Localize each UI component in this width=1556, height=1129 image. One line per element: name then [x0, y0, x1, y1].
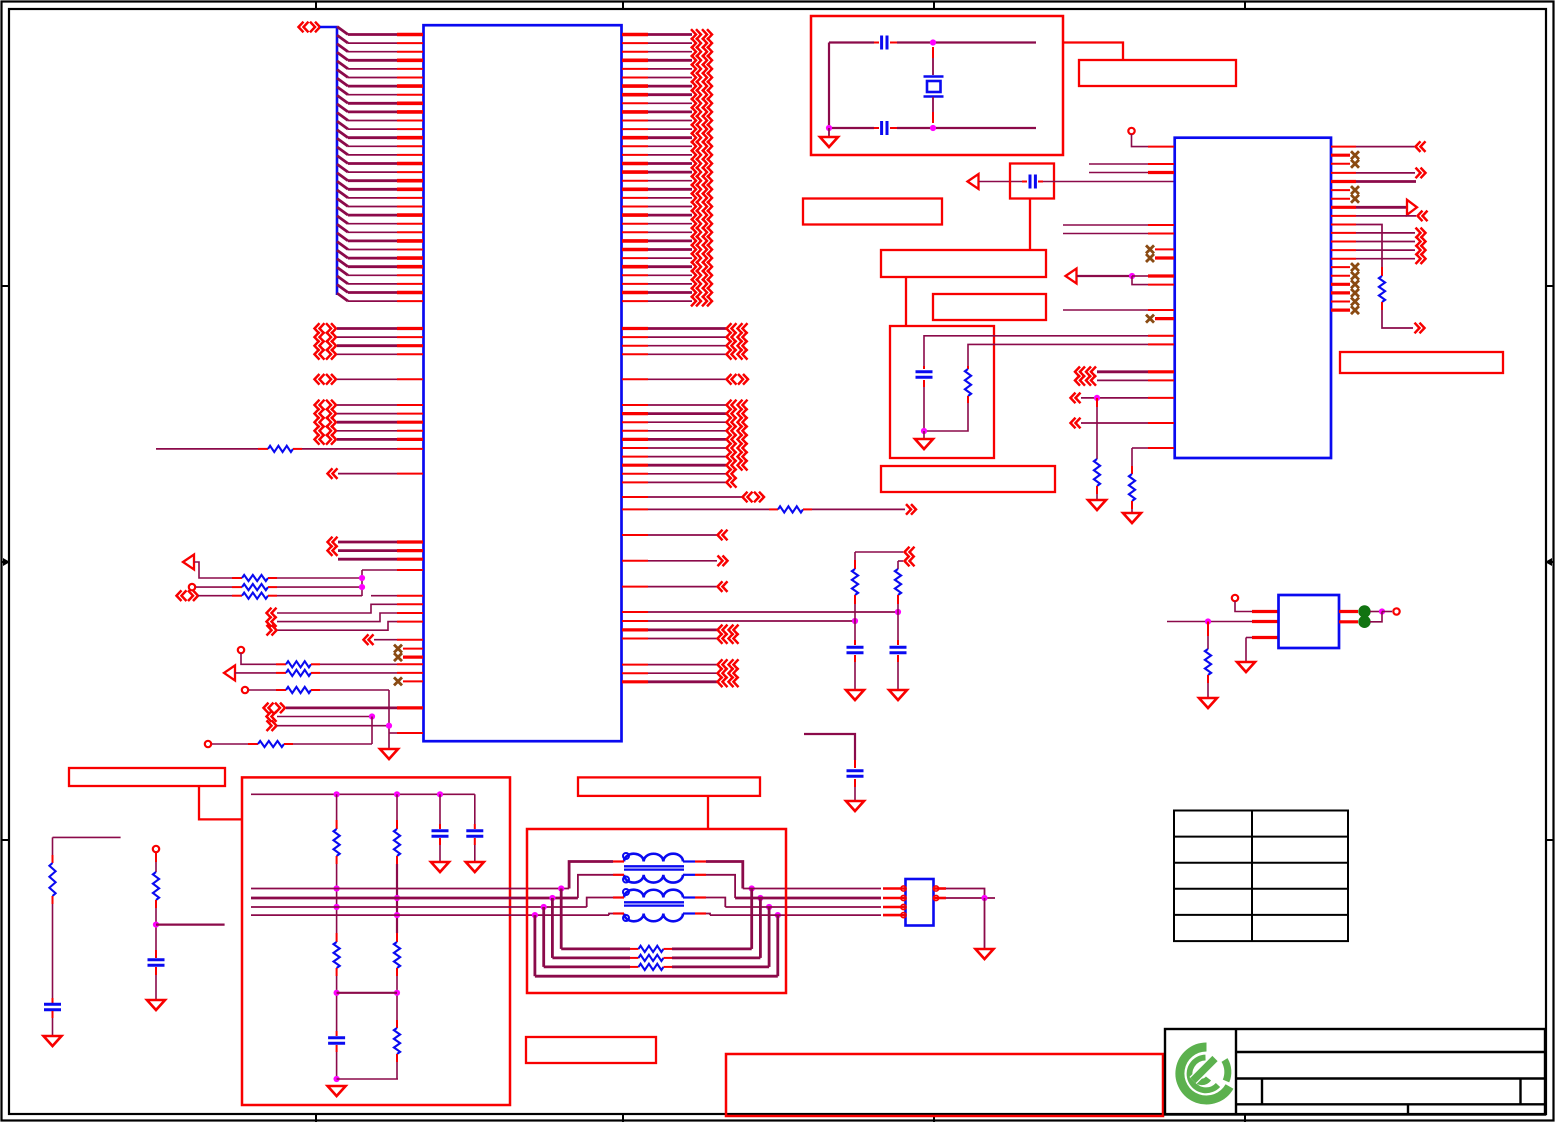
wire: [706, 898, 725, 908]
pin U1 left: [397, 473, 423, 475]
off-page connector: [743, 492, 748, 503]
bus entry wire: [337, 121, 348, 129]
wire U1 left pin row: [348, 214, 397, 217]
wire: [648, 464, 726, 467]
wire vertical: [396, 976, 398, 1020]
pin stub: [248, 743, 258, 745]
pin stub: [396, 968, 398, 976]
terminal: [205, 741, 211, 747]
off-page connector: [691, 236, 696, 247]
pin circle: [933, 895, 938, 900]
off-page connector: [738, 349, 743, 360]
off-page connector: [729, 633, 734, 644]
wire top: [897, 41, 1036, 43]
resistor R6: [286, 670, 311, 676]
wire: [569, 862, 613, 889]
title block bottom divider: [1407, 1104, 1409, 1114]
wire: [320, 689, 389, 691]
pin stub: [155, 967, 157, 975]
resistor R25: [639, 955, 664, 961]
wire vertical: [336, 1052, 338, 1079]
pin U1 right: [622, 248, 648, 252]
junction: [930, 39, 936, 45]
wire vertical: [371, 717, 373, 745]
pin T1: [695, 860, 706, 862]
resistor R9: [778, 506, 803, 512]
wire vertical: [984, 898, 986, 949]
off-page connector: [738, 340, 743, 351]
border zone tick top: [315, 2, 317, 9]
pin U1 left: [397, 33, 423, 37]
off-page connector: [727, 417, 732, 428]
junction: [359, 575, 365, 581]
pin U2 right: [1331, 275, 1350, 277]
off-page connector: [267, 616, 272, 627]
pin U1 right: [622, 534, 648, 536]
wire: [648, 438, 726, 441]
wire: [198, 595, 232, 597]
terminal: [153, 846, 159, 852]
pin U1 right: [622, 345, 648, 347]
off-page connector: [727, 469, 732, 480]
wire U1 left pin row: [348, 136, 397, 139]
wire: [286, 707, 397, 710]
off-page connector: [1071, 418, 1076, 429]
junction: [334, 1076, 340, 1082]
pin stub: [396, 933, 398, 942]
wire: [1097, 370, 1148, 373]
resistor R15: [1379, 276, 1385, 302]
off-page connector: [702, 218, 707, 229]
pin U1 right: [622, 51, 648, 53]
pin stub: [967, 396, 969, 403]
off-page connector: [1416, 236, 1421, 247]
pin stub: [232, 586, 242, 588]
wire: [1382, 611, 1392, 613]
wire U1 left pin row: [348, 85, 397, 88]
wire staircase: [277, 622, 397, 631]
wire: [1356, 258, 1415, 260]
pin U1 right: [622, 102, 648, 104]
wire gnd stub: [923, 431, 925, 439]
wire U1 right pin row: [648, 300, 692, 302]
pin stub: [52, 855, 54, 863]
resistor R26: [639, 964, 664, 970]
pin T1: [613, 860, 624, 862]
resistor R23: [394, 1028, 400, 1054]
resistor R20: [334, 942, 340, 968]
pin U1 left: [397, 291, 423, 295]
wire: [648, 345, 726, 347]
no-connect: [394, 653, 402, 661]
off-page connector: [702, 175, 707, 186]
bus entry wire: [337, 216, 348, 224]
wire U1 right pin row: [648, 248, 692, 251]
wire U1 right pin row: [648, 257, 692, 259]
wire: [337, 327, 397, 330]
wire vertical: [923, 387, 925, 431]
pin U1 right: [622, 128, 648, 130]
wire: [1077, 275, 1132, 277]
pin U2 left: [1148, 284, 1174, 286]
title block cell line: [1261, 1079, 1263, 1105]
label box: [803, 199, 942, 225]
wire: [648, 378, 726, 380]
off-page connector: [691, 81, 696, 92]
off-page connector: [702, 296, 707, 307]
pin circle: [901, 895, 906, 900]
pin stub: [474, 838, 476, 845]
pin U1 right: [622, 110, 648, 114]
pin U1 left: [397, 154, 423, 156]
wire: [1356, 172, 1415, 174]
pin U1 left: [397, 706, 423, 709]
terminal: [1393, 608, 1399, 614]
ground: [846, 690, 864, 700]
wire vertical: [396, 794, 398, 820]
resistor R7: [286, 687, 311, 693]
wire: [648, 508, 769, 510]
off-page connector: [702, 210, 707, 221]
pin U1 left: [397, 249, 423, 251]
capacitor C8: [44, 1003, 61, 1006]
pin U1 left: [397, 549, 423, 552]
wire U1 left pin row: [348, 162, 397, 165]
pin stub: [854, 779, 856, 787]
bus entry wire: [337, 156, 348, 164]
wire: [535, 975, 778, 978]
wire: [672, 948, 752, 951]
pin U2 left: [1148, 447, 1174, 449]
junction: [921, 428, 927, 434]
pin J1: [883, 887, 905, 890]
wire: [648, 412, 726, 415]
ground: [328, 1086, 346, 1096]
wire U1 right pin row: [648, 197, 692, 199]
wire U1 left pin row: [348, 128, 397, 130]
off-page connector: [702, 279, 707, 290]
resistor R24: [639, 946, 664, 952]
pin U1 right: [622, 180, 648, 182]
wire U1 left pin row: [348, 94, 397, 96]
resistor R2: [242, 575, 268, 581]
wire U1 left pin row: [348, 120, 397, 122]
pin U1 left: [397, 179, 423, 183]
off-page connector: [267, 711, 272, 722]
wire: [337, 413, 397, 415]
pin U1 left: [397, 663, 423, 665]
wire: [648, 638, 717, 640]
pin stub: [932, 47, 934, 58]
bus entry wire: [337, 259, 348, 267]
bus entry wire: [337, 104, 348, 112]
off-page connector: [729, 659, 734, 670]
pin U1 left: [397, 206, 423, 208]
label box: [726, 1054, 1163, 1116]
port output: [1407, 200, 1417, 215]
ground: [466, 862, 484, 872]
junction: [394, 990, 400, 996]
border center arrow right: [1547, 561, 1554, 563]
wire vertical: [396, 1062, 398, 1079]
wire elbow: [1370, 612, 1382, 622]
pin circle: [901, 913, 906, 918]
border zone tick bottom: [933, 1114, 935, 1122]
wire: [337, 438, 397, 441]
capacitor C7: [916, 370, 933, 373]
pin U1 left: [397, 603, 423, 605]
off-page connector: [702, 46, 707, 57]
off-page connector: [718, 556, 723, 567]
off-page connector: [702, 98, 707, 109]
pin stub: [336, 1045, 338, 1052]
wire ethernet pair: [725, 906, 881, 908]
off-page connector: [1075, 367, 1080, 378]
off-page connector: [727, 460, 732, 471]
bus wire: [320, 26, 337, 29]
off-page connector: [727, 374, 732, 385]
pin stub: [1131, 466, 1133, 474]
junction: [1379, 608, 1385, 614]
ground: [380, 749, 398, 759]
pin stub: [155, 852, 157, 862]
junction: [394, 895, 400, 901]
title block row line: [1236, 1103, 1545, 1105]
off-page connector: [727, 340, 732, 351]
wire: [338, 549, 397, 552]
pin U2 left: [1148, 343, 1174, 345]
pin U1 left: [397, 274, 423, 276]
wire: [1043, 181, 1174, 183]
pin U1 left: [397, 595, 423, 597]
off-page connector: [702, 150, 707, 161]
wire: [706, 862, 743, 889]
wire: [1356, 180, 1416, 183]
pin U1 left: [397, 621, 423, 623]
off-page connector: [691, 218, 696, 229]
wire: [320, 663, 397, 665]
off-page connector: [691, 89, 696, 100]
wire: [337, 336, 397, 338]
border zone tick bottom: [1244, 1114, 1246, 1122]
junction: [541, 904, 547, 910]
wire: [648, 534, 717, 536]
wire: [389, 732, 397, 734]
wire: [648, 430, 726, 432]
pin U1 right: [622, 421, 648, 423]
wire: [544, 966, 630, 969]
wire: [648, 629, 717, 632]
pin stub: [52, 1011, 54, 1018]
pin U2 right: [1331, 206, 1356, 209]
off-page connector: [691, 227, 696, 238]
border zone tick top: [933, 2, 935, 9]
wire: [277, 716, 372, 718]
pin U1 right: [622, 223, 648, 225]
pin U2 left: [1148, 233, 1174, 235]
off-page connector: [702, 201, 707, 212]
wire: [648, 327, 726, 330]
off-page connector: [364, 634, 369, 645]
no-connect: [1351, 289, 1359, 297]
pin stub: [1096, 486, 1098, 494]
resistor R19: [334, 829, 340, 856]
junction: [549, 895, 555, 901]
pin U1 right: [622, 672, 648, 674]
pin U1 right: [622, 84, 648, 88]
pin U1 right: [622, 508, 648, 510]
pin stub: [268, 595, 277, 597]
wire: [337, 430, 397, 432]
pin J1 right: [934, 887, 946, 890]
wire: [1235, 601, 1252, 612]
off-page connector: [691, 193, 696, 204]
pin U1 right: [622, 327, 648, 330]
pin U1 right: [622, 620, 648, 622]
wire U1 left pin row: [348, 33, 397, 36]
pin stub: [52, 896, 54, 904]
junction: [334, 791, 340, 797]
wire U1 right pin row: [648, 128, 692, 130]
junction: [532, 912, 538, 918]
ground: [1199, 698, 1217, 708]
pin U1 right: [622, 154, 648, 156]
wire: [648, 421, 726, 423]
pin stub: [1096, 398, 1098, 407]
junction: [1205, 618, 1211, 624]
wire vertical: [361, 570, 363, 596]
off-page connector: [691, 29, 696, 40]
off-page connector: [702, 236, 707, 247]
border zone tick top: [1244, 2, 1246, 9]
border zone tick right: [1546, 285, 1554, 287]
off-page connector: [727, 323, 732, 334]
wire U1 right pin row: [648, 239, 692, 242]
wire: [374, 639, 397, 641]
wire: [293, 743, 372, 745]
ground: [976, 949, 994, 959]
border zone tick bottom: [622, 1114, 624, 1122]
pin U1 left: [397, 283, 423, 285]
no-connect: [1146, 254, 1154, 262]
off-page connector: [691, 115, 696, 126]
pin stub: [1381, 302, 1383, 310]
wire U1 right pin row: [648, 265, 692, 268]
capacitor C10: [432, 829, 449, 832]
no-connect: [1351, 186, 1359, 194]
pin U1 right: [622, 438, 648, 441]
wire vertical: [854, 552, 856, 560]
wire: [648, 473, 726, 475]
off-page connector: [691, 98, 696, 109]
pin stub: [52, 998, 54, 1003]
pin U2 left: [1155, 317, 1174, 320]
pin stub: [284, 743, 293, 745]
wire ethernet pair: [251, 897, 578, 900]
wire vertical: [155, 908, 157, 958]
pin stub: [890, 42, 897, 44]
resistor R16: [1205, 649, 1211, 675]
junction: [981, 895, 987, 901]
wire vertical: [1096, 407, 1098, 459]
wire U1 right pin row: [648, 180, 692, 182]
capacitor C4: [880, 36, 883, 50]
ground: [1123, 513, 1141, 523]
pin stub: [276, 672, 286, 674]
crystal Y1: [924, 75, 944, 78]
wire vertical: [1096, 494, 1098, 500]
pin U1 left: [397, 102, 423, 106]
off-page connector: [691, 270, 696, 281]
title block row line: [1236, 1051, 1545, 1053]
pin U1 right: [622, 206, 648, 208]
no-connect: [1351, 151, 1359, 159]
pin stub: [932, 112, 934, 123]
pin U1 right: [622, 412, 648, 415]
wire U1 right pin row: [648, 223, 692, 225]
pin stub: [396, 856, 398, 864]
wire U1 right pin row: [648, 162, 692, 165]
pin U2 right: [1331, 301, 1350, 303]
pin stub: [664, 948, 673, 950]
pin U1 left: [397, 327, 423, 330]
pin U1 left: [397, 413, 423, 415]
wire: [648, 560, 717, 562]
wire: [277, 577, 362, 579]
wire top: [829, 41, 874, 43]
off-page connector: [727, 451, 732, 462]
off-page connector: [738, 323, 743, 334]
off-page connector: [691, 150, 696, 161]
wire: [212, 743, 248, 745]
pin U1 right: [622, 93, 648, 97]
pin stub: [630, 948, 639, 950]
pin U2 left: [1148, 309, 1174, 311]
wire: [194, 562, 232, 578]
off-page connector bus left: [299, 22, 304, 33]
wire: [1167, 621, 1252, 623]
pin stub: [1131, 501, 1133, 509]
pin U2 right: [1331, 146, 1356, 148]
label box: [881, 250, 1046, 277]
terminal: [1232, 595, 1238, 601]
pin stub: [923, 366, 925, 369]
wire: [648, 496, 742, 498]
pin U1 left: [397, 430, 423, 432]
bus entry wire: [337, 233, 348, 241]
pin U1 left: [397, 344, 423, 347]
pin stub: [336, 820, 338, 829]
off-page connector: [1071, 393, 1076, 404]
ground: [1088, 500, 1106, 510]
label box: [933, 294, 1046, 320]
label callout line: [1029, 199, 1031, 251]
wire bottom: [829, 127, 874, 129]
pin U2 left: [1148, 422, 1174, 424]
pin U1 right: [622, 291, 648, 295]
label callout line: [707, 796, 709, 829]
junction: [766, 904, 772, 910]
pin U2 right: [1331, 258, 1356, 260]
pin T2: [695, 912, 706, 914]
bus entry wire: [337, 224, 348, 232]
junction: [386, 723, 392, 729]
logo: [1180, 1047, 1230, 1100]
resistor R14: [1129, 474, 1135, 501]
resistor R4: [242, 593, 268, 599]
wire U1 right pin row: [648, 102, 692, 104]
wire U1 left pin row: [348, 111, 397, 114]
